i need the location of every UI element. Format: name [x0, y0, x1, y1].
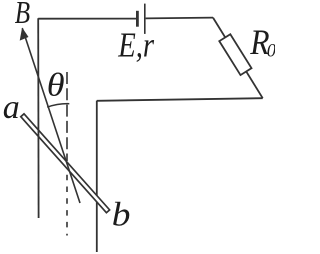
dashed vertical reference line lower part — [66, 175, 68, 236]
magnetic field B line — [22, 28, 80, 203]
svg-text:E,r: E,r — [117, 25, 154, 64]
battery cell E,r positive plate — [144, 4, 146, 34]
wire top-right segment — [146, 17, 213, 20]
svg-text:B: B — [15, 0, 30, 31]
svg-text:0: 0 — [267, 41, 275, 61]
svg-text:a: a — [3, 89, 20, 126]
dashed vertical reference line upper part — [66, 72, 68, 161]
rail left vertical — [37, 18, 39, 218]
wire diagonal through resistor — [213, 18, 263, 99]
svg-text:θ: θ — [47, 66, 65, 103]
battery cell E,r negative plate — [136, 11, 139, 27]
resistor R0 — [219, 34, 251, 75]
wire bottom horizontal — [97, 98, 263, 101]
rail right vertical — [96, 101, 98, 252]
svg-text:b: b — [112, 195, 131, 233]
rod ab — [21, 114, 110, 213]
angle theta arc — [47, 104, 69, 108]
arrowhead of B — [20, 28, 29, 41]
wire top-left segment — [38, 18, 136, 20]
